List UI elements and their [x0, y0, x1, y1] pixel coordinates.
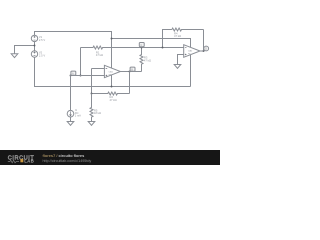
- node junction at (111.5,86.5): [111, 86, 113, 88]
- svg-text:http://circuitlab.com/c/1495td: http://circuitlab.com/c/1495tdy: [43, 159, 92, 163]
- voltage source V2: [31, 51, 37, 57]
- wire OA1 output: [120, 71, 141, 73]
- svg-text:2.5 V: 2.5 V: [39, 38, 45, 42]
- logo waveform: [8, 160, 19, 163]
- node junction at (111.5,38.5): [111, 38, 113, 40]
- node junction at (91.5,93.5): [91, 93, 93, 95]
- svg-text:2.5 V: 2.5 V: [39, 53, 45, 57]
- svg-text:LAB: LAB: [24, 158, 34, 163]
- node junction at (129.5,71.5): [129, 71, 131, 73]
- wire OA2 feedback up: [163, 30, 172, 48]
- resistor R1 horizontal: [81, 46, 184, 49]
- wire branch to OA2 V+: [112, 39, 191, 48]
- node junction at (80.5,75.5): [80, 75, 82, 77]
- op-amp OA2: [184, 45, 200, 58]
- node flag A at OA1 + input: [71, 74, 72, 75]
- node junction at (162.5,47.5): [162, 47, 164, 49]
- resistor R5 vertical to ground: [90, 94, 93, 122]
- ground G1: [11, 54, 18, 58]
- wire OA2 output: [200, 50, 205, 52]
- svg-text:18 kΩ: 18 kΩ: [94, 111, 101, 115]
- node flag C above R3: [141, 46, 143, 48]
- ground G2: [174, 65, 181, 69]
- wire to ground G1: [15, 46, 35, 54]
- svg-text:47 kΩ: 47 kΩ: [144, 58, 151, 62]
- node junction at (203.5,51): [203, 50, 205, 52]
- svg-text:C: C: [140, 43, 142, 47]
- footer bar: [0, 150, 220, 165]
- voltage source V1: [31, 35, 37, 41]
- node junction at (70.5,75.5): [70, 75, 72, 77]
- wire output down to feedback: [129, 72, 131, 94]
- node junction at (141.5,47.5): [141, 47, 143, 49]
- svg-text:1 mA: 1 mA: [75, 114, 81, 118]
- logo LAB: [20, 159, 23, 162]
- wire - input node down to feedback: [91, 69, 93, 94]
- op-amp OA1: [104, 65, 120, 77]
- svg-text:47 kΩ: 47 kΩ: [174, 34, 181, 38]
- svg-text:47 kΩ: 47 kΩ: [110, 98, 117, 102]
- wire OA1 V- pin: [111, 75, 113, 87]
- ground G4: [88, 122, 95, 126]
- node flag B at OA1 output: [130, 71, 132, 72]
- svg-text:A: A: [72, 71, 74, 75]
- wire OA1 + input: [71, 75, 105, 77]
- svg-text:B: B: [131, 67, 133, 71]
- svg-text:47 kΩ: 47 kΩ: [96, 53, 103, 57]
- current source I1: [70, 76, 72, 111]
- resistor R2 feedback horizontal: [92, 92, 130, 95]
- wire between V1 and V2: [34, 42, 36, 51]
- svg-text:D: D: [205, 47, 207, 51]
- svg-text:flores7 / circuito flores: flores7 / circuito flores: [43, 153, 85, 158]
- ground G3: [67, 122, 74, 126]
- node flag OUT: [204, 50, 205, 51]
- wire +V rail from V1 top: [35, 32, 112, 69]
- wire feedback down to output: [203, 30, 205, 52]
- wire OA1 - input: [92, 68, 105, 70]
- resistor R4 feedback: [172, 28, 204, 31]
- node junction at (34.5,45.5): [34, 45, 36, 47]
- resistor R3 vertical: [140, 48, 143, 72]
- wire OA2 + input to ground: [178, 55, 184, 65]
- wire R1 left down to OA1 + input: [80, 48, 82, 76]
- wire -V rail from V2 bottom: [35, 57, 191, 86]
- wire OA2 V- pin: [190, 55, 192, 87]
